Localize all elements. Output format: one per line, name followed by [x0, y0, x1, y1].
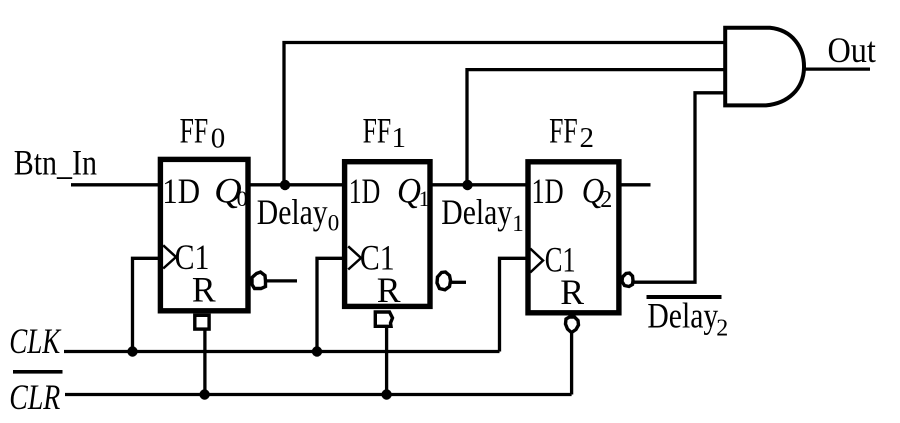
- svg-text:R: R: [377, 270, 401, 310]
- svg-text:R: R: [560, 272, 584, 312]
- svg-text:2: 2: [716, 316, 728, 342]
- svg-text:Delay: Delay: [441, 192, 512, 232]
- svg-text:0: 0: [328, 210, 340, 235]
- svg-text:Delay: Delay: [257, 192, 328, 232]
- svg-text:FF: FF: [363, 111, 392, 151]
- svg-text:0: 0: [237, 186, 248, 211]
- svg-text:1: 1: [419, 186, 430, 211]
- svg-text:1D: 1D: [532, 171, 564, 211]
- svg-text:R: R: [192, 270, 216, 310]
- svg-text:CLR: CLR: [9, 377, 60, 417]
- svg-text:0: 0: [211, 123, 226, 155]
- svg-text:Delay: Delay: [647, 295, 718, 335]
- svg-text:Btn_In: Btn_In: [14, 143, 97, 183]
- svg-text:1: 1: [512, 211, 524, 236]
- svg-text:Q: Q: [397, 170, 421, 210]
- svg-text:2: 2: [600, 187, 612, 213]
- svg-text:Out: Out: [828, 30, 876, 70]
- svg-text:1: 1: [392, 122, 407, 154]
- svg-text:FF: FF: [180, 111, 209, 151]
- svg-text:2: 2: [580, 122, 595, 154]
- svg-text:1D: 1D: [349, 171, 381, 211]
- svg-text:1D: 1D: [162, 171, 200, 211]
- svg-text:FF: FF: [549, 111, 578, 151]
- svg-text:CLK: CLK: [9, 321, 61, 361]
